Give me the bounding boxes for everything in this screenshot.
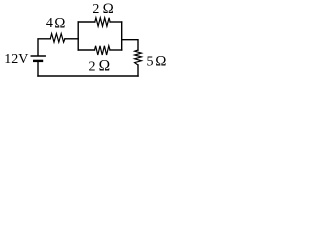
wire: 4-ohm to parallel box left node <box>65 38 78 40</box>
wire: top branch left segment <box>78 21 95 23</box>
resistor R3 2-ohm bottom zigzag <box>95 46 111 55</box>
wire: bottom branch left segment <box>78 49 94 51</box>
wire top-left: battery positive up to top rail, right to 4-ohm <box>38 39 50 56</box>
battery V1 negative plate (short thick) <box>34 60 42 62</box>
resistor R2 2-ohm top zigzag <box>95 18 110 26</box>
node A: parallel box left edge <box>77 22 79 50</box>
node B: parallel box right edge <box>121 22 123 50</box>
wire bottom rail <box>38 75 138 77</box>
svg-text:Ω: Ω <box>103 1 114 17</box>
svg-text:5: 5 <box>147 54 154 69</box>
resistor R4 5-ohm vertical zigzag <box>135 50 142 65</box>
battery V1 positive plate (long) <box>31 55 45 57</box>
svg-text:12V: 12V <box>4 52 28 67</box>
wire: battery negative to bottom rail <box>37 62 39 76</box>
svg-text:Ω: Ω <box>99 58 111 75</box>
wire: bottom branch right segment <box>110 49 122 51</box>
wire: top branch right segment <box>110 21 122 23</box>
svg-text:Ω: Ω <box>54 15 65 31</box>
svg-text:2: 2 <box>89 59 96 74</box>
svg-text:Ω: Ω <box>155 54 166 70</box>
resistor R1 4-ohm zigzag <box>50 34 65 43</box>
wire: box right node to 5-ohm branch corner <box>122 40 138 50</box>
svg-text:2: 2 <box>92 2 99 17</box>
wire: 5-ohm to bottom rail <box>137 65 139 76</box>
svg-text:4: 4 <box>46 16 53 31</box>
